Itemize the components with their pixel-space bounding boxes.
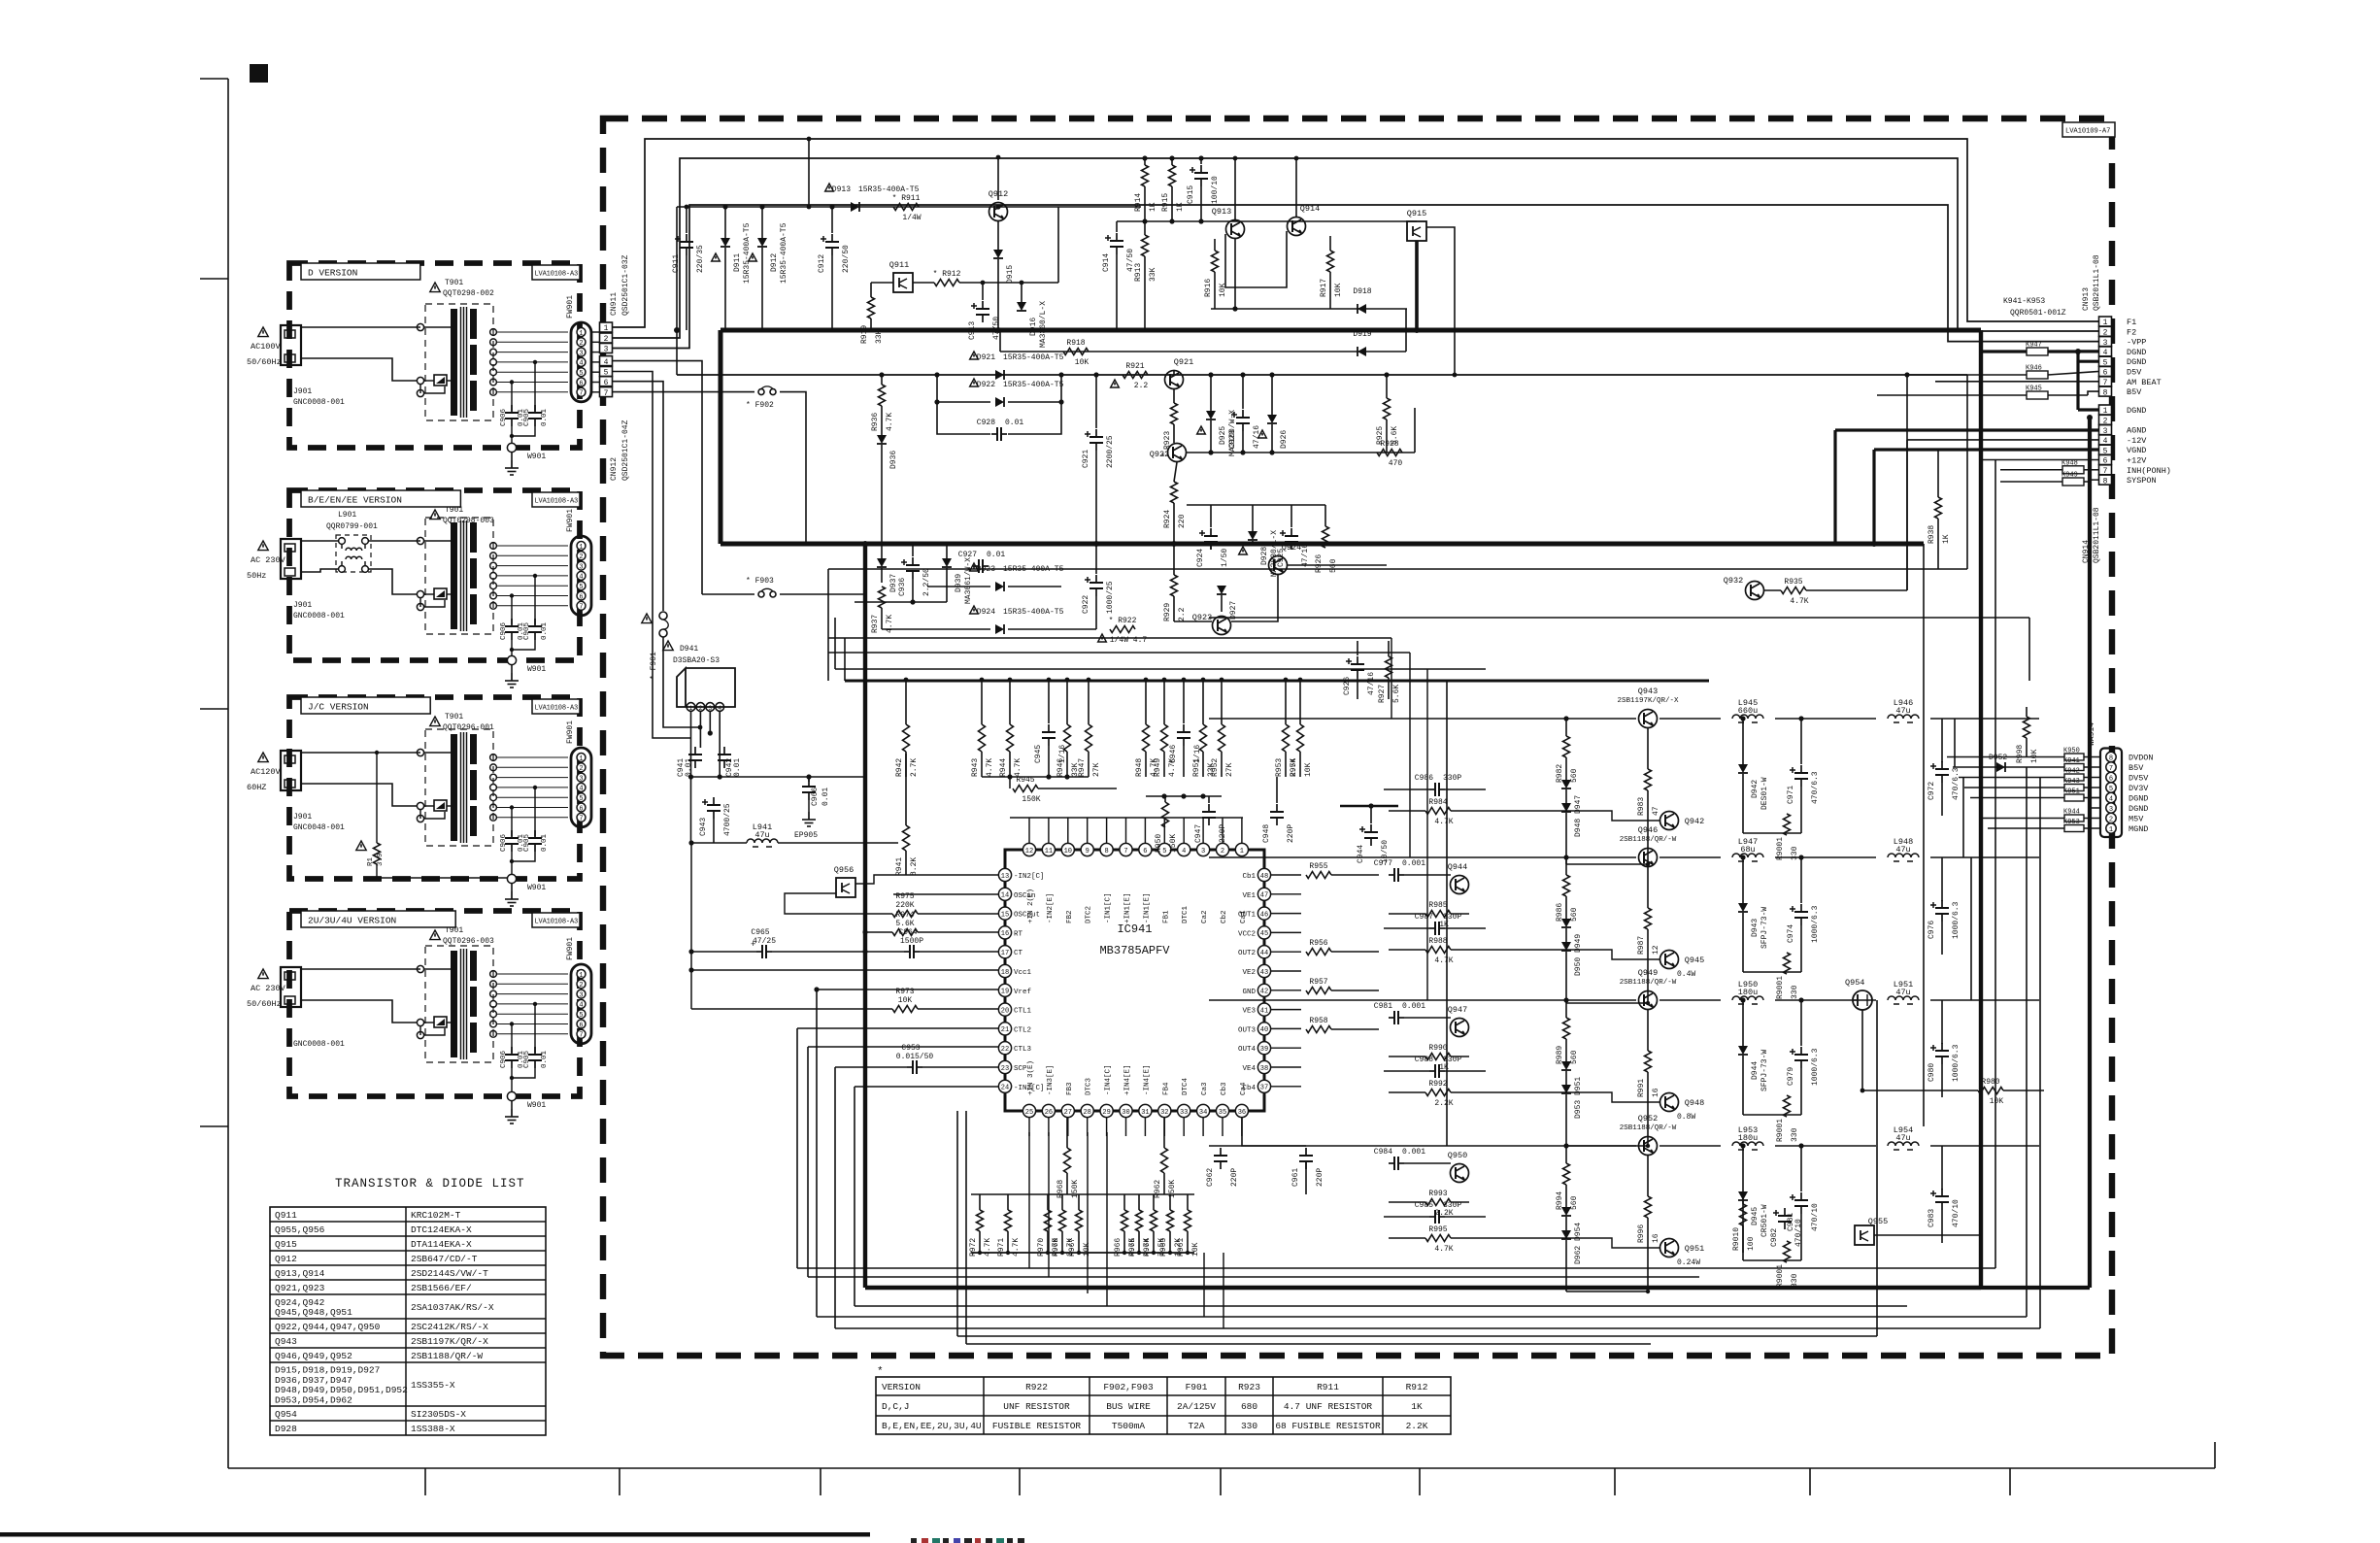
wire	[1208, 796, 1210, 803]
svg-text:220P: 220P	[1287, 824, 1295, 843]
inductor L948 47u	[1888, 837, 1919, 861]
svg-text:41: 41	[1260, 1007, 1268, 1015]
wire	[1384, 1217, 1660, 1248]
dashed board outline J/C VERSION	[289, 697, 580, 879]
board label LVA10108-A3	[532, 265, 580, 280]
resistor R985 1K	[1425, 901, 1451, 929]
transistor Q915	[1407, 209, 1426, 241]
transistor Q912	[989, 189, 1008, 221]
svg-text:32: 32	[1160, 1109, 1168, 1117]
svg-text:C977: C977	[1374, 859, 1392, 868]
diode D944	[1738, 1046, 1769, 1091]
svg-text:15R35-400A-T5: 15R35-400A-T5	[743, 222, 752, 284]
wire	[1200, 186, 1202, 221]
resistor R943 4.7K	[971, 724, 994, 777]
junction	[981, 281, 986, 285]
resistor R956	[1306, 939, 1331, 956]
pin 28 IC941	[1081, 1077, 1093, 1117]
svg-text:R992: R992	[1428, 1080, 1447, 1089]
transistor Q944	[1448, 862, 1469, 894]
svg-text:D941: D941	[680, 645, 698, 654]
wire	[1874, 1234, 1981, 1236]
ground W901	[505, 443, 546, 475]
svg-text:C905: C905	[523, 1050, 531, 1068]
svg-text:Q915: Q915	[1407, 209, 1426, 218]
svg-text:2: 2	[579, 553, 583, 561]
wire	[996, 155, 1001, 200]
wire	[1163, 1173, 1165, 1194]
svg-text:C927: C927	[958, 551, 977, 559]
diode D922	[970, 379, 1064, 407]
svg-text:R915: R915	[1161, 193, 1170, 212]
wire	[2026, 707, 2028, 717]
wire	[1163, 1118, 1165, 1148]
svg-text:12: 12	[1025, 848, 1033, 855]
wire	[1647, 1072, 1649, 1146]
wire	[1800, 857, 1802, 903]
wire DGND jumper	[1981, 349, 2098, 361]
svg-text:-IN1[C]: -IN1[C]	[1105, 892, 1113, 923]
wire	[699, 711, 701, 748]
svg-text:Q945,Q948,Q951: Q945,Q948,Q951	[275, 1307, 352, 1318]
wire	[827, 569, 829, 681]
svg-text:1SS355-X: 1SS355-X	[411, 1380, 455, 1391]
capacitor C980 1000/6.3	[1927, 1043, 1961, 1082]
wire	[1295, 158, 1297, 217]
warning triangle	[258, 969, 268, 979]
svg-text:16: 16	[1001, 930, 1009, 938]
wire rail	[1659, 855, 1876, 859]
wire	[1386, 375, 1388, 398]
pin 9 IC941	[1081, 843, 1093, 923]
svg-text:Ca2: Ca2	[1201, 910, 1209, 923]
resistor R921 2.2	[1111, 362, 1149, 390]
svg-text:K941-K953: K941-K953	[2003, 297, 2045, 306]
svg-text:Q943: Q943	[275, 1336, 297, 1347]
svg-text:1K: 1K	[1176, 202, 1185, 212]
junction	[1020, 281, 1024, 285]
wire	[1007, 1194, 1009, 1210]
svg-text:10K: 10K	[1334, 283, 1343, 297]
jumper K941	[2063, 757, 2084, 771]
wire	[1008, 628, 1096, 630]
pin 40 IC941	[1238, 1023, 1271, 1035]
svg-text:FB2: FB2	[1066, 910, 1074, 923]
ground EP905	[794, 800, 818, 840]
svg-text:R923: R923	[1238, 1382, 1260, 1392]
svg-text:26: 26	[1045, 1109, 1053, 1117]
wire	[708, 711, 713, 736]
capacitor C905 0.01	[523, 786, 549, 852]
resistor R964 7.5K	[1143, 1210, 1166, 1257]
svg-text:QSB2011L1-08: QSB2011L1-08	[2093, 507, 2101, 563]
AC rating label	[247, 984, 286, 1009]
pin 48 IC941	[1242, 868, 1270, 881]
resistor R922 1/4W 4.7	[1098, 617, 1148, 645]
plug label J901 GNC0008-001	[293, 601, 345, 621]
resistor R938 1K	[1927, 497, 1951, 544]
wire	[1000, 309, 1406, 352]
svg-text:R947: R947	[1078, 758, 1087, 777]
resistor R9010 100	[1732, 1204, 1756, 1251]
svg-text:OUT3: OUT3	[1238, 1026, 1257, 1034]
svg-text:D915: D915	[1006, 265, 1015, 284]
svg-text:Q921: Q921	[1174, 357, 1193, 367]
wire	[1941, 1146, 1943, 1190]
wire	[1565, 1094, 1567, 1146]
warning triangle	[258, 753, 268, 762]
wire	[1202, 680, 1204, 724]
svg-text:35: 35	[1219, 1109, 1226, 1117]
resistor R984 4.7K	[1425, 798, 1454, 826]
wire	[1647, 728, 1649, 769]
capacitor C985 330P	[1415, 1201, 1462, 1224]
wire	[1078, 1231, 1080, 1253]
resistor R9001 330	[1776, 814, 1799, 860]
resistor R966 4.7K	[1114, 1210, 1137, 1257]
diode D943	[1738, 903, 1769, 949]
svg-text:2: 2	[579, 340, 583, 348]
wire	[1389, 1163, 1469, 1202]
svg-text:C915: C915	[1187, 185, 1195, 204]
svg-text:R913: R913	[1134, 263, 1143, 282]
wire	[831, 255, 833, 330]
svg-text:4.7K: 4.7K	[986, 758, 994, 777]
transistor Q911	[889, 260, 913, 292]
wire	[1800, 787, 1802, 833]
wire	[1187, 1194, 1189, 1210]
svg-text:T2A: T2A	[1188, 1421, 1204, 1431]
svg-text:2.2K: 2.2K	[1434, 1209, 1453, 1218]
svg-text:15: 15	[1001, 911, 1009, 919]
wire	[1288, 564, 1387, 566]
wire	[1095, 451, 1097, 544]
resistor R912	[933, 270, 961, 286]
svg-text:560: 560	[1570, 768, 1579, 783]
wire	[1565, 857, 1567, 875]
resistor R915 1K	[1161, 165, 1185, 212]
wire	[1202, 752, 1204, 777]
svg-text:DTC4: DTC4	[1182, 1077, 1190, 1095]
svg-text:D926: D926	[1280, 430, 1289, 449]
wire pin17	[688, 949, 998, 954]
resistor R929 2.2	[1163, 575, 1187, 621]
capacitor C905 0.01	[523, 1002, 549, 1068]
svg-text:4.7K: 4.7K	[886, 615, 894, 633]
junction	[1298, 678, 1303, 683]
resistor R950 150K	[1155, 802, 1178, 853]
wire	[1252, 505, 1254, 531]
pin 17 IC941	[998, 946, 1022, 958]
svg-text:* F901: * F901	[650, 652, 658, 680]
svg-text:6: 6	[1143, 848, 1147, 855]
wire	[1743, 971, 1801, 973]
svg-text:D939: D939	[955, 574, 963, 592]
svg-text:10: 10	[1064, 848, 1072, 855]
wire	[1007, 1231, 1009, 1253]
resistor R924 220	[1163, 482, 1187, 528]
svg-text:Q956: Q956	[834, 865, 854, 875]
wire	[1291, 505, 1292, 527]
wire	[1565, 719, 1567, 736]
svg-text:5: 5	[579, 370, 583, 378]
wire	[778, 842, 898, 844]
wire	[1329, 236, 1331, 251]
wire rail	[1930, 999, 2039, 1001]
svg-text:GND: GND	[1242, 989, 1256, 996]
svg-text:470/6.3: 470/6.3	[1811, 771, 1820, 804]
svg-text:2SB1197K/QR/-X: 2SB1197K/QR/-X	[411, 1336, 488, 1347]
resistor R919 33K	[860, 297, 884, 344]
wire rail	[1930, 1145, 2039, 1147]
pin 14 IC941	[998, 888, 1035, 900]
wire rail	[1659, 997, 1876, 1002]
svg-text:W901: W901	[527, 1101, 546, 1110]
wire	[1647, 929, 1649, 1003]
svg-text:Vcc1: Vcc1	[1014, 969, 1032, 977]
svg-text:15R35-400A-T5: 15R35-400A-T5	[1003, 608, 1064, 617]
wire DGND down	[2078, 361, 2098, 410]
capacitor C906 0.01	[500, 593, 525, 640]
svg-text:D925: D925	[1219, 426, 1227, 445]
svg-text:220/35: 220/35	[696, 245, 705, 273]
plug label J901 GNC0048-001	[293, 813, 345, 832]
wire	[1941, 783, 1943, 816]
svg-text:1000/6.3: 1000/6.3	[1811, 1048, 1820, 1086]
svg-text:1000/25: 1000/25	[1106, 581, 1115, 614]
svg-text:2SB1197K/QR/-X: 2SB1197K/QR/-X	[1617, 697, 1679, 705]
secondary tap circles	[490, 543, 497, 610]
wire	[1029, 1118, 1242, 1136]
svg-text:2: 2	[1221, 848, 1224, 855]
svg-text:0.015/50: 0.015/50	[896, 1053, 934, 1061]
wire	[881, 568, 883, 583]
svg-text:* F902: * F902	[746, 401, 774, 410]
connector FW901	[566, 509, 591, 616]
wire	[1800, 1068, 1802, 1115]
transistor Q951	[1660, 1239, 1705, 1258]
pin 19 IC941	[998, 984, 1031, 996]
wire DGND link	[2088, 795, 2100, 808]
svg-text:D911: D911	[733, 253, 742, 272]
wire rail thick	[845, 680, 1709, 683]
svg-text:-IN4[E]: -IN4[E]	[1143, 1064, 1151, 1095]
wire pin14	[893, 893, 998, 895]
capacitor C927 0.01	[958, 551, 1006, 573]
wire	[2084, 818, 2100, 820]
wire	[1021, 283, 1022, 302]
resistor R941 8.2K	[895, 825, 919, 876]
svg-text:2.7K: 2.7K	[910, 758, 919, 777]
wire	[1173, 503, 1175, 544]
wire	[1010, 777, 1117, 788]
wire	[1095, 596, 1097, 629]
svg-text:1: 1	[1240, 848, 1244, 855]
svg-text:R946: R946	[1056, 758, 1065, 777]
resistor R925 5.6K	[1376, 398, 1399, 445]
wire filter to transformer	[369, 541, 420, 594]
svg-text:Q911: Q911	[889, 260, 909, 270]
svg-text:1K: 1K	[1149, 202, 1157, 212]
wire	[927, 586, 990, 587]
pin 11 IC941	[1042, 843, 1055, 923]
wire	[1384, 1071, 1660, 1102]
svg-text:47/16: 47/16	[1367, 672, 1376, 695]
svg-text:68 FUSIBLE RESISTOR: 68 FUSIBLE RESISTOR	[1275, 1421, 1381, 1431]
svg-text:Q955,Q956: Q955,Q956	[275, 1224, 325, 1235]
wire	[1066, 680, 1068, 724]
wire	[1116, 221, 1118, 232]
wire	[1982, 818, 2064, 820]
dashed board outline D VERSION	[289, 263, 580, 448]
wire	[834, 618, 836, 669]
wire	[1565, 928, 1567, 942]
capacitor C906 0.01	[500, 1022, 525, 1068]
wire	[1388, 641, 1390, 656]
capacitor C905 0.01	[523, 360, 549, 426]
wire	[1173, 370, 1175, 375]
resistor R973 10K	[892, 988, 918, 1013]
transistor Q922	[1150, 444, 1187, 462]
wire	[1008, 586, 1061, 587]
transformer T901 QQT0298-002	[417, 279, 494, 420]
wire	[912, 579, 914, 602]
svg-text:FUSIBLE RESISTOR: FUSIBLE RESISTOR	[992, 1421, 1082, 1431]
diode D948	[1561, 803, 1583, 837]
pin 44 IC941	[1238, 946, 1271, 958]
resistor R951 33K	[1192, 724, 1216, 777]
resistor R970 4.7K	[1037, 1210, 1060, 1257]
AC plug J901	[281, 967, 301, 1007]
resistor R990 1K	[1425, 1044, 1451, 1072]
capacitor C906 0.01	[500, 380, 525, 426]
svg-text:47: 47	[1652, 806, 1660, 816]
transistor & diode list table	[270, 1207, 546, 1435]
wire	[881, 544, 883, 558]
transistor Q948	[1660, 1093, 1705, 1112]
diode D937	[877, 558, 898, 592]
wire	[912, 544, 914, 556]
svg-text:VE1: VE1	[1242, 892, 1256, 900]
connector CN912	[600, 356, 631, 481]
wire	[881, 375, 883, 385]
wire	[1123, 1231, 1125, 1253]
svg-text:T500mA: T500mA	[1112, 1421, 1146, 1431]
wire	[1047, 1231, 1049, 1253]
svg-text:DTC1: DTC1	[1182, 905, 1190, 923]
wire	[1800, 1146, 1802, 1191]
svg-text:R937: R937	[871, 615, 880, 633]
wire +12V	[1983, 459, 2098, 461]
transistor Q955	[1855, 1217, 1888, 1245]
svg-text:30: 30	[1122, 1109, 1129, 1117]
transistor Q946	[1638, 825, 1658, 867]
svg-text:DGND: DGND	[2129, 794, 2148, 804]
svg-text:13: 13	[1001, 873, 1009, 881]
svg-text:R936: R936	[871, 413, 880, 431]
svg-text:DTC2: DTC2	[1086, 906, 1093, 923]
wire	[1171, 186, 1173, 221]
svg-text:OUT4: OUT4	[1238, 1046, 1257, 1054]
svg-text:470/6.3: 470/6.3	[1952, 767, 1961, 800]
svg-text:C983: C983	[1927, 1209, 1936, 1227]
svg-text:C944: C944	[1357, 845, 1365, 863]
wire	[1384, 789, 1660, 821]
pin 46 IC941	[1238, 907, 1271, 920]
wire	[981, 752, 983, 777]
wire	[1221, 680, 1223, 724]
svg-text:50/60Hz: 50/60Hz	[247, 999, 282, 1009]
svg-text:0.01: 0.01	[1005, 419, 1023, 427]
svg-text:2SA1037AK/RS/-X: 2SA1037AK/RS/-X	[411, 1302, 494, 1313]
diode D928	[1239, 530, 1279, 577]
wire	[1285, 680, 1287, 724]
wire	[1214, 239, 1216, 251]
svg-text:Q943: Q943	[1638, 687, 1658, 696]
svg-text:C948: C948	[1262, 824, 1271, 843]
svg-text:7: 7	[1123, 848, 1127, 855]
wire -12V	[1907, 439, 2098, 441]
svg-text:2SB1566/EF/: 2SB1566/EF/	[411, 1283, 472, 1293]
capacitor C979 1000/6.3	[1787, 1047, 1820, 1086]
svg-text:FB3: FB3	[1066, 1082, 1074, 1095]
svg-text:2A/125V: 2A/125V	[1177, 1401, 1216, 1412]
capacitor C987 330P	[1415, 913, 1462, 935]
resistor R949 4.7K	[1154, 724, 1177, 777]
svg-text:C965: C965	[751, 928, 769, 937]
svg-text:7: 7	[579, 1032, 583, 1040]
inductor L953 180u	[1732, 1125, 1763, 1150]
wire AM BEAT	[1935, 381, 2098, 383]
svg-text:DTC3: DTC3	[1086, 1077, 1093, 1095]
svg-text:F902,F903: F902,F903	[1103, 1382, 1154, 1392]
wire	[761, 207, 763, 238]
pin 18 IC941	[998, 964, 1031, 977]
svg-text:R951: R951	[1192, 758, 1201, 777]
svg-text:150K: 150K	[1169, 834, 1178, 853]
svg-text:330: 330	[1791, 985, 1799, 999]
svg-text:2: 2	[698, 705, 702, 712]
dashed board outline 2U/3U/4U VERSION	[289, 911, 580, 1096]
wire	[1941, 857, 1943, 901]
svg-text:0.001: 0.001	[1402, 1148, 1425, 1157]
wire	[1388, 678, 1390, 699]
svg-text:C906: C906	[500, 621, 508, 640]
version title box J/C VERSION	[301, 697, 430, 714]
connector FW901	[566, 721, 591, 827]
svg-text:1/4W: 1/4W	[902, 214, 921, 222]
wire	[1138, 1194, 1140, 1210]
svg-text:FB1: FB1	[1162, 910, 1170, 923]
wire	[905, 754, 907, 825]
svg-text:R963: R963	[1159, 1238, 1168, 1257]
svg-text:R949: R949	[1154, 758, 1162, 777]
pin 15 IC941	[998, 907, 1040, 920]
wire	[1242, 375, 1244, 409]
svg-text:R942: R942	[895, 758, 904, 777]
svg-text:0.8W: 0.8W	[1677, 1113, 1695, 1122]
svg-text:C923: C923	[1228, 430, 1237, 449]
svg-text:46: 46	[1260, 911, 1268, 919]
diode D925	[1197, 410, 1237, 456]
wire	[905, 680, 907, 724]
svg-text:D936,D937,D947: D936,D937,D947	[275, 1375, 352, 1386]
jumper K946	[2026, 365, 2048, 380]
wire	[870, 283, 872, 297]
resistor R987 12	[1637, 908, 1660, 955]
svg-text:C972: C972	[1927, 782, 1936, 800]
svg-text:D,C,J: D,C,J	[882, 1401, 910, 1412]
